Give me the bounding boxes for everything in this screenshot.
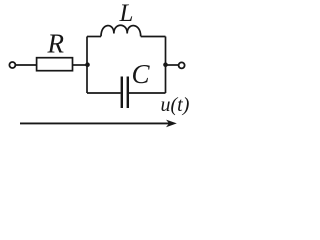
svg-text:u(t): u(t) — [161, 94, 190, 116]
svg-text:R: R — [47, 29, 65, 59]
svg-text:L: L — [119, 0, 134, 27]
svg-text:C: C — [132, 59, 151, 89]
